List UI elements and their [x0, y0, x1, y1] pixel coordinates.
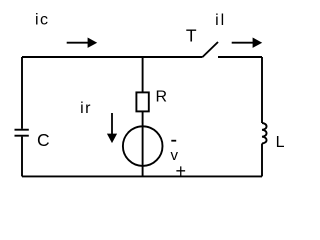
- wire left side upper: [21, 57, 23, 129]
- current arrow il: [232, 38, 263, 48]
- wire right side upper: [261, 57, 263, 123]
- svg-text:il: il: [215, 12, 226, 29]
- capacitor C: [15, 130, 29, 136]
- svg-text:R: R: [156, 89, 168, 106]
- wire right side lower: [261, 144, 263, 177]
- svg-text:L: L: [276, 134, 285, 151]
- wire from switch right contact to top-right corner: [218, 56, 262, 58]
- wire left side lower: [21, 137, 23, 177]
- svg-text:+: +: [176, 161, 187, 181]
- inductor L coil: [262, 123, 267, 143]
- svg-text:C: C: [37, 130, 50, 150]
- wire top from left corner to switch: [22, 56, 203, 58]
- resistor R: [136, 92, 148, 111]
- wire middle branch vertical: [142, 57, 144, 176]
- wire bottom: [22, 175, 262, 177]
- current arrow ic: [67, 38, 98, 48]
- voltage source v (circle): [123, 126, 163, 166]
- svg-text:ic: ic: [35, 11, 49, 28]
- svg-text:ir: ir: [80, 100, 92, 117]
- label minus: [171, 140, 176, 142]
- current arrow ir: [107, 113, 117, 143]
- switch T blade: [203, 42, 219, 57]
- svg-text:T: T: [186, 26, 197, 46]
